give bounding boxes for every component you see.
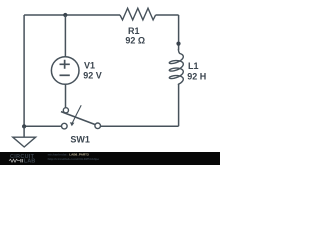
svg-text:LAB: LAB: [24, 159, 36, 165]
svg-text:SW1: SW1: [70, 135, 90, 145]
wire V1 branch upper: [64, 15, 66, 57]
wire V1 branch lower: [65, 85, 67, 108]
wire bottom rail left segment: [24, 125, 61, 127]
svg-text:92 Ω: 92 Ω: [125, 36, 145, 46]
wire right rail lower: [178, 84, 180, 126]
svg-text:http://circuitlab.com/c/9L39f5: http://circuitlab.com/c/9L39f5Ab3pe: [48, 157, 100, 161]
wire bottom rail right segment: [100, 125, 178, 127]
switch SW1 actuation arrow: [72, 105, 81, 123]
wire left rail: [23, 15, 25, 126]
switch SW1 blade: [61, 112, 95, 125]
switch SW1 right terminal circle: [95, 123, 101, 129]
CircuitLab logo capacitor mark: [21, 159, 23, 162]
switch SW1 top terminal circle: [63, 108, 68, 113]
node dot top (V1 branch junction): [63, 13, 67, 17]
wire right rail upper: [178, 15, 180, 50]
V1 minus sign: [60, 74, 70, 76]
node dot right: [176, 42, 180, 46]
svg-text:L1: L1: [188, 61, 199, 71]
resistor R1: [120, 8, 156, 20]
wire top rail left segment: [24, 14, 120, 16]
wire top rail right segment: [156, 14, 179, 16]
switch SW1 left terminal circle: [62, 123, 68, 129]
ground symbol: [13, 137, 36, 147]
svg-text:92 V: 92 V: [83, 70, 102, 80]
switch SW1 arrowhead: [70, 122, 75, 126]
wire ground stub: [23, 126, 25, 137]
svg-text:92 H: 92 H: [187, 72, 206, 82]
CircuitLab logo squiggle: [9, 159, 20, 162]
svg-text:V1: V1: [84, 61, 95, 71]
voltage source V1 circle: [51, 57, 79, 85]
node dot bottom-left (ground junction): [22, 124, 26, 128]
footer banner: [0, 152, 220, 165]
inductor L1 coil: [169, 49, 183, 84]
V1 plus sign: [60, 60, 70, 69]
